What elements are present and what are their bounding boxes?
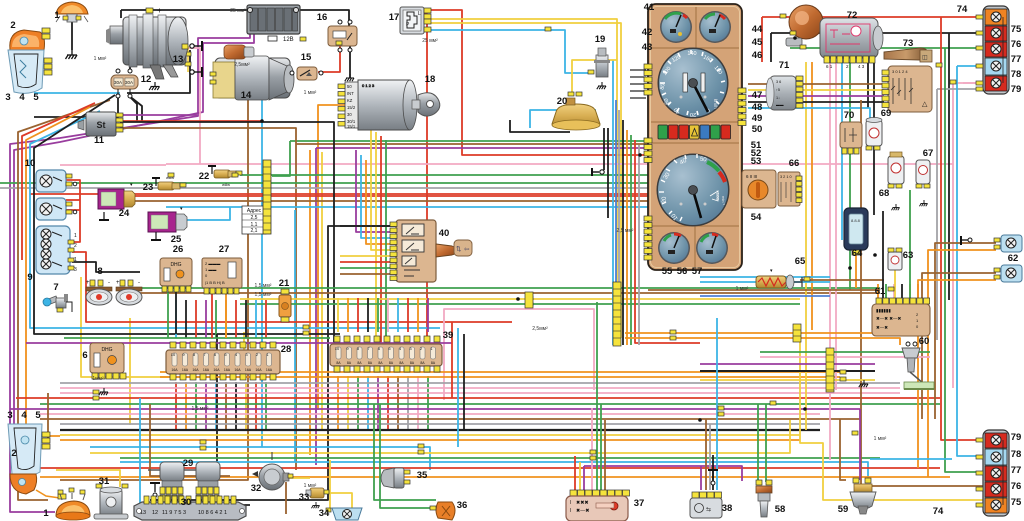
wire [572,60,617,96]
wire [66,209,80,211]
wire [205,300,207,338]
wire [705,419,707,490]
addr table [242,206,266,234]
svg-text:73: 73 [903,38,914,49]
svg-text:8A: 8A [389,361,394,365]
wire [626,130,628,345]
wire [765,404,767,482]
svg-text:16A: 16A [192,368,199,372]
wire [366,160,396,244]
wire [397,376,399,430]
svg-text:12B: 12B [283,37,294,43]
wire [770,33,772,62]
gauge 55 (volt) [658,232,690,264]
wire [255,300,257,338]
switch 15 [290,67,323,80]
wire [361,155,396,238]
svg-text:7: 7 [53,282,58,293]
component 62 [994,235,1022,282]
sensor 19 [588,48,610,89]
battery [247,5,300,43]
svg-text:↑5: ↑5 [776,88,780,92]
connector strip right2 [826,348,834,392]
wire [357,376,359,430]
wire [615,100,617,345]
wire [638,145,640,345]
wire [60,90,248,480]
svg-text:68: 68 [879,188,890,199]
sensor 25 [148,206,187,240]
svg-text:2,5мм²: 2,5мм² [532,326,548,332]
wire [941,17,984,440]
svg-text:59: 59 [838,504,849,515]
svg-text:6 1: 6 1 [826,64,833,69]
wire [909,190,911,298]
wire [272,141,290,176]
svg-text:54: 54 [751,212,762,223]
wire [72,262,140,272]
gauge 44 (temp) [699,11,731,43]
wire [761,17,763,62]
wire [71,14,73,50]
relay St 11 [78,112,123,136]
svg-text:3 2 1 0: 3 2 1 0 [780,175,792,179]
sensor 59 [850,478,876,514]
svg-text:3: 3 [5,92,10,103]
svg-text:24: 24 [119,208,130,219]
wire [380,404,436,508]
wire [26,342,452,344]
svg-text:38: 38 [722,503,733,514]
headlight 2 (top) [8,28,52,93]
svg-text:16A: 16A [224,368,231,372]
svg-text:36: 36 [457,500,468,511]
svg-text:1,5 мм²: 1,5 мм² [255,283,272,289]
svg-text:2: 2 [74,243,77,249]
column switch 40 [390,220,472,282]
wire [385,140,387,344]
wire [800,330,984,500]
speedometer 45 [658,48,729,119]
wire [128,95,142,122]
wire [893,284,895,298]
wire [285,482,287,514]
wire [424,30,592,73]
contact T right [961,236,972,245]
svg-text:22: 22 [199,171,210,182]
wire [240,298,800,300]
wire [574,456,576,494]
wire [648,289,880,291]
sensor 7 [43,294,72,312]
wire [829,62,831,460]
svg-text:4: 4 [19,92,25,103]
svg-text:25 мм²: 25 мм² [230,8,246,14]
wire [26,107,90,436]
wire [861,100,984,486]
wire [34,95,118,117]
wire [60,423,820,425]
svg-text:1: 1 [74,257,77,263]
svg-text:⇦: ⇦ [464,246,470,253]
indicator lamps 10a [36,170,77,192]
svg-text:30A: 30A [114,80,122,85]
block 27 [202,258,242,294]
wire [66,180,80,242]
svg-text:11: 11 [94,135,105,146]
svg-text:3: 3 [7,410,12,421]
svg-text:35: 35 [417,470,428,481]
svg-text:60: 60 [919,336,930,347]
block 61 [872,298,930,336]
svg-text:44: 44 [752,24,763,35]
svg-text:74: 74 [957,4,968,15]
svg-text:56: 56 [677,266,688,277]
ignition switch 18 [338,80,440,130]
svg-text:minˉ¹: minˉ¹ [721,196,726,206]
svg-text:1,5 мм²: 1,5 мм² [255,292,272,298]
wire [10,12,250,512]
fuse 12 [111,69,138,98]
svg-text:✖—✖: ✖—✖ [576,508,589,514]
wire [377,298,379,332]
svg-text:77: 77 [1011,54,1022,65]
wire [340,261,396,263]
svg-text:1: 1 [54,10,60,21]
svg-text:47: 47 [752,90,763,101]
wire [139,398,141,503]
wire [700,379,875,381]
svg-text:◫: ◫ [922,55,928,61]
wire [255,382,257,430]
sensor 68 [888,152,904,188]
display 64 [844,208,868,255]
svg-text:9: 9 [27,272,32,283]
svg-text:8A: 8A [410,361,415,365]
wire [748,95,884,97]
svg-text:1 мм²: 1 мм² [94,56,107,62]
svg-text:78: 78 [1011,449,1022,460]
switch 35 [381,468,410,488]
svg-text:12: 12 [141,74,152,85]
wire [60,439,800,441]
wire [387,298,389,332]
wire [530,110,596,128]
wire [66,199,80,201]
wire [356,150,396,232]
wire [700,466,702,490]
wire [118,200,648,202]
stalk 73 [884,48,932,62]
svg-text:74: 74 [933,506,944,517]
svg-text:48: 48 [752,102,763,113]
svg-text:78: 78 [1011,69,1022,80]
wire [427,298,429,332]
indicator row 47-53 [658,125,731,139]
wire green bus [290,140,648,142]
wire [60,387,900,389]
wire [748,89,884,91]
wire [22,103,95,260]
wire [625,332,905,334]
svg-text:32: 32 [251,483,262,494]
wire [130,292,880,294]
tail light block 74 (bottom) [976,430,1009,516]
wire [296,10,349,26]
wire [612,60,614,345]
wire [596,302,598,494]
wire [855,250,857,288]
wire [374,404,436,500]
lamp 34 [326,508,362,520]
coils 29 [148,462,220,502]
svg-text:10: 10 [171,352,176,357]
component 63 [888,248,902,270]
wire [417,376,419,430]
svg-text:19: 19 [595,34,606,45]
wire [118,120,262,122]
svg-text:8A: 8A [399,361,404,365]
wire [120,10,122,18]
wire [14,12,254,452]
wire [894,270,896,298]
wire [349,46,351,78]
svg-text:✖—✖ ✖—✖: ✖—✖ ✖—✖ [876,316,902,321]
wire [760,351,930,353]
wire [716,318,718,490]
gauge 56 (oil) [696,232,728,264]
wire [748,108,870,130]
wire [40,418,860,420]
wire [917,284,919,298]
svg-text:46: 46 [752,50,763,61]
wire [90,420,790,453]
svg-text:27: 27 [219,244,230,255]
wire [40,476,950,478]
wire [245,382,247,430]
svg-text:75: 75 [1011,497,1022,508]
wire [901,284,903,298]
wire [422,14,427,340]
wire [284,477,310,479]
wire [150,404,230,476]
wire [261,74,263,447]
wire [748,101,884,103]
wire [330,493,352,508]
svg-text:20: 20 [557,96,568,107]
wire [771,32,984,34]
svg-text:72: 72 [847,10,858,21]
svg-text:10 8 6 4 2 1: 10 8 6 4 2 1 [198,510,227,516]
motor 71 [766,76,803,110]
switch block 73b [882,66,932,112]
wire [60,429,820,431]
wire [175,382,177,430]
wire [424,23,621,338]
wire [60,434,800,436]
svg-text:79: 79 [1011,432,1022,443]
wire [700,370,875,372]
wire [10,408,860,410]
connector strip mid [525,292,533,308]
wire [877,284,879,298]
wire [60,382,900,384]
sensor 58 [756,480,772,517]
svg-text:0 1 2 3: 0 1 2 3 [362,83,375,88]
wire [294,210,296,462]
svg-text:2 ▬▬▬: 2 ▬▬▬ [205,261,220,266]
svg-text:50: 50 [347,84,352,89]
svg-text:62: 62 [1008,253,1019,264]
wire [316,147,648,149]
wire [160,376,840,378]
fog lamp 1 (bottom) [56,488,90,520]
svg-text:2: 2 [10,20,15,31]
wire [357,298,359,332]
wire [129,318,131,425]
wire [867,42,869,108]
svg-text:30: 30 [181,497,192,508]
wire [936,89,938,340]
svg-text:I: I [570,500,571,506]
wire [700,281,830,283]
wire [195,382,197,430]
svg-text:2,1: 2,1 [251,228,258,234]
lamps 8 [86,280,142,305]
svg-text:3 0 1 2 4: 3 0 1 2 4 [892,69,908,74]
wire [607,128,609,218]
svg-text:30: 30 [347,112,352,117]
wire [16,397,940,399]
starter 14 [210,45,294,100]
indicator lamps 10b [36,198,77,220]
wire [166,48,200,164]
wire [347,298,349,332]
svg-text:5: 5 [35,410,41,421]
svg-text:10: 10 [335,346,340,351]
svg-text:29: 29 [183,458,194,469]
wire [805,62,807,430]
wire [603,128,605,170]
svg-text:2,5мм²: 2,5мм² [234,62,250,68]
svg-text:-: - [138,280,140,286]
wire [166,206,648,208]
wire [340,255,396,257]
booster 32 [252,452,293,490]
svg-text:76: 76 [1011,39,1022,50]
wire [591,408,593,494]
wire [128,95,137,122]
wire [748,83,884,85]
wire [175,290,177,334]
wire [463,334,465,430]
wire [240,174,648,176]
wire [318,105,345,410]
T-post 30 [150,483,160,497]
svg-text:I: I [570,508,571,514]
wire [849,62,851,290]
wire [64,337,330,339]
svg-text:6: 6 [82,350,87,361]
relay 26 [160,258,192,292]
svg-text:28: 28 [281,344,292,355]
wire [757,404,759,482]
svg-text:76: 76 [1011,481,1022,492]
svg-text:13: 13 [173,54,184,65]
wire [622,120,624,345]
wire [0,187,648,189]
svg-text:23: 23 [143,182,154,193]
svg-text:▬▬: ▬▬ [776,103,784,107]
wire [321,152,323,430]
svg-text:31: 31 [99,476,110,487]
wire [329,460,331,508]
wire [841,62,843,240]
wire [235,382,237,430]
wire [211,292,213,338]
wire [215,300,217,338]
svg-text:3 6: 3 6 [776,80,781,84]
svg-text:2: 2 [11,448,16,459]
svg-text:15: 15 [301,52,312,63]
svg-text:49: 49 [752,113,763,124]
wire [945,48,984,472]
svg-text:21: 21 [279,278,290,289]
svg-text:79: 79 [1011,84,1022,95]
wire [800,279,884,281]
svg-text:77: 77 [1011,465,1022,476]
wire [185,300,187,338]
svg-text:140: 140 [687,51,696,57]
connector 30 [134,496,246,520]
svg-text:11 9 7 5 3: 11 9 7 5 3 [162,510,186,516]
wire [40,413,820,415]
wire [30,193,648,195]
wire [859,409,861,480]
wire [700,276,830,278]
wire [178,207,230,220]
wire [712,455,714,490]
svg-text:DHG: DHG [101,347,112,353]
wire [225,382,227,430]
svg-text:-: - [108,280,110,286]
gauge 41 (fuel) [660,11,692,43]
wire [457,328,459,447]
svg-text:4 3: 4 3 [858,64,865,69]
wire [60,164,166,166]
tachometer 54 [657,154,730,227]
wire [120,457,880,459]
svg-text:30A: 30A [125,80,133,85]
ground post pair [185,41,202,77]
svg-text:71: 71 [779,60,790,71]
wire [130,287,880,289]
wire [937,88,984,90]
cluster pins [644,64,746,260]
wire [377,376,379,430]
svg-text:4: 4 [21,410,27,421]
wire [422,10,648,155]
wire [150,504,250,506]
svg-text:16A: 16A [255,368,262,372]
svg-text:39: 39 [443,330,454,341]
coil 31 [94,484,128,519]
wire [185,382,187,430]
wire [811,62,813,330]
svg-text:1↓: 1↓ [776,96,780,100]
ground 67 [919,200,927,206]
svg-text:△: △ [922,101,928,108]
